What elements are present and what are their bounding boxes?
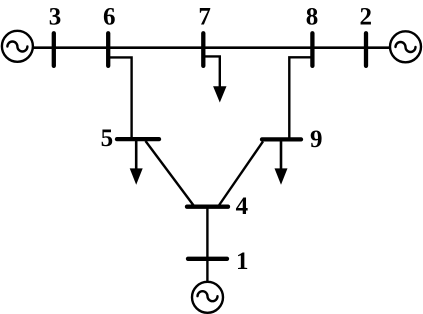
svg-text:7: 7 bbox=[198, 4, 211, 31]
svg-text:4: 4 bbox=[236, 193, 249, 220]
svg-text:9: 9 bbox=[310, 126, 323, 153]
svg-text:8: 8 bbox=[306, 4, 319, 31]
svg-text:6: 6 bbox=[103, 4, 116, 31]
svg-text:5: 5 bbox=[101, 125, 114, 152]
svg-text:3: 3 bbox=[49, 4, 62, 31]
svg-text:1: 1 bbox=[236, 248, 249, 275]
svg-text:2: 2 bbox=[359, 4, 372, 31]
